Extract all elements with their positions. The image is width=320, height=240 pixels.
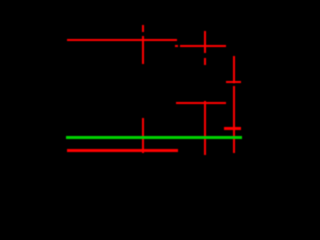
diffusion net: long green active wire — [66, 136, 242, 139]
pin stub: dashed top lead of gate poly at node X1 — [142, 25, 144, 32]
wire: poly net C horizontal segment — [176, 102, 226, 104]
pin stub: dashed lower lead of Q2 gate poly — [204, 58, 206, 65]
wire: poly net A horizontal segment (top-left long red wire) — [67, 39, 178, 41]
transistor Q3 gate: lower vertical poly segment crossing diffusion — [233, 86, 235, 153]
transistor Q3 gate: upper vertical poly segment (right column) — [233, 56, 235, 83]
transistor Q4 gate: vertical poly segment crossing diffusion at node X2 — [204, 101, 206, 156]
wire: poly net D horizontal stub at right edge — [226, 81, 242, 83]
transistor Q5 gate: vertical poly segment crossing diffusion — [142, 118, 144, 153]
wire: poly net F horizontal stub at right edge — [224, 127, 241, 129]
wire: poly net E horizontal segment (bottom-left long red wire) — [67, 149, 179, 151]
transistor Q2 gate: upper vertical poly segment crossing net B — [204, 31, 206, 53]
transistor Q1 gate: vertical poly segment crossing net A — [142, 36, 144, 64]
pin stub: dash at left end of poly net B — [175, 45, 178, 47]
wire: poly net B horizontal segment — [180, 45, 226, 47]
